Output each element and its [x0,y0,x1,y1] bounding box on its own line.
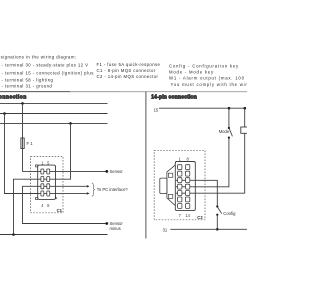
svg-text:Config - Configuration key: Config - Configuration key [169,64,239,69]
svg-text:8-pin connection: 8-pin connection [0,94,27,100]
wire bus58 to pin 6 [38,123,71,179]
node bus30 tap [21,102,24,105]
wire pin 3 to sensor minus [23,186,107,223]
C1 pin holes [41,169,50,196]
switch Config [216,205,218,207]
node bus15 tap [3,112,6,115]
wire terminal 15 bus [0,113,108,115]
node sensor minus [105,222,108,225]
resistor W1 [241,127,249,133]
wire terminal 15 [159,107,246,109]
svg-text:8: 8 [47,203,50,208]
svg-text:4: 4 [41,203,44,208]
wire mode switch to pin 11 [176,138,229,187]
connector C2 dashed box [154,150,205,220]
svg-text:Mode: Mode [219,129,230,134]
wire ground to pin 2 [14,179,38,234]
wire fuse to pin 1 [23,149,38,172]
svg-text:Mode - Mode key: Mode - Mode key [169,70,214,75]
wire resistor to pin 12 [176,133,245,193]
wire terminal 30 bus [0,102,108,104]
C2 latch [160,178,167,194]
wire bus30 to fuse [22,103,24,138]
svg-text:To PC interface?: To PC interface? [97,187,129,192]
svg-text:5: 5 [47,160,50,165]
wire pin 8 arrow [38,192,87,194]
node 15 mode tap [228,107,231,110]
wire config switch to 31 [216,215,218,229]
svg-text:esignations in the wiring diag: esignations in the wiring diagram: [0,55,77,60]
svg-text:Config: Config [223,211,236,216]
wire pin 10 to config switch [176,180,218,206]
label Sensor minus [110,221,124,231]
C1 key tab bottom [36,198,38,200]
svg-text:You must comply with the wirin: You must comply with the wiring diagr [171,82,248,87]
connector C1 body [38,165,56,199]
C2 pin labels [179,156,191,217]
C1 pin labels [41,160,50,208]
node ground bus tap [12,233,15,236]
fuse F1 [21,138,24,149]
wire terminal 31 [170,228,247,230]
connector C1 dashed box [31,156,63,212]
connector C2 body [175,162,195,211]
svg-text:- terminal 58 - lighting: - terminal 58 - lighting [2,78,54,83]
svg-text:Sensor: Sensor [110,169,124,174]
wire pin 5 to sensor [38,170,107,172]
svg-text:1: 1 [179,156,182,161]
svg-text:- terminal 31 - ground: - terminal 31 - ground [2,84,53,89]
switch Mode [228,127,230,129]
svg-text:F 1: F 1 [27,141,34,146]
svg-text:7: 7 [179,213,182,218]
svg-text:31: 31 [163,227,168,232]
bracket [92,183,95,196]
wire ground bus [0,234,108,236]
C1 corner mark [55,196,57,199]
svg-text:14: 14 [185,213,190,218]
legend text column 1 [0,55,94,89]
svg-text:C2 - 14-pin MQS connector: C2 - 14-pin MQS connector [97,74,159,79]
horizontal rule [0,91,70,93]
svg-text:8: 8 [187,156,190,161]
panel divider [145,92,147,239]
svg-text:C2: C2 [197,215,203,220]
wire pin 7 arrow [38,185,87,187]
legend text column 2 [97,62,161,79]
node sensor [105,170,108,173]
node 15 W1 tap [244,107,247,110]
wire bus15 to pin 4 [5,114,38,194]
C2 flange key top [168,173,172,177]
svg-text:C1 - 8-pin MQS connector: C1 - 8-pin MQS connector [97,68,156,73]
wire 15 to mode switch [228,108,230,127]
svg-text:- terminal 30 - steady-state p: - terminal 30 - steady-state plus 12 V [2,63,89,68]
svg-text:W1 - Alarm output (max. 100 mA: W1 - Alarm output (max. 100 mA) [169,76,247,81]
svg-text:F1 - fuse 5A quick-response: F1 - fuse 5A quick-response [97,62,161,67]
C1 key tab top [36,165,38,167]
legend text column 3 [169,64,271,88]
C2 flange key bottom [168,194,172,198]
svg-text:15: 15 [154,107,159,112]
svg-text:C1: C1 [57,208,63,213]
node 31 tap [216,228,219,231]
wire terminal 58 bus [0,122,108,124]
svg-text:minus: minus [110,226,121,231]
svg-text:14-pin connection: 14-pin connection [151,94,197,100]
C2 pin holes [178,165,190,209]
svg-text:1: 1 [41,160,44,165]
wire 15 to resistor W1 [244,108,246,127]
C2 flange trapezoid [167,165,175,206]
node bus58 tap [69,122,72,125]
svg-text:- terminal 15 - connected (ign: - terminal 15 - connected (ignition) plu… [2,71,94,76]
